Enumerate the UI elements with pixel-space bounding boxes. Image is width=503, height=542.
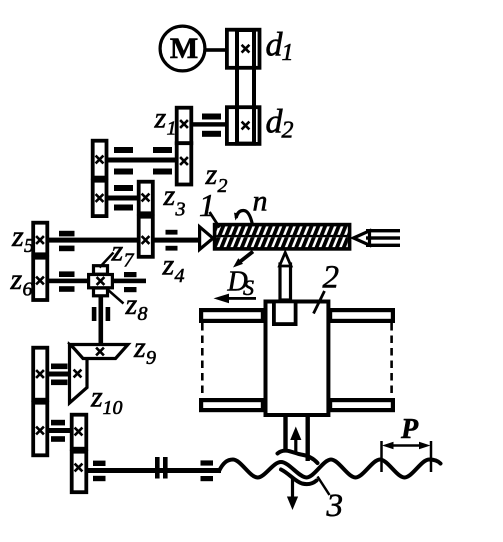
pulley d2 — [227, 107, 260, 144]
dashed line left — [201, 323, 204, 398]
bearing on vertical shaft — [92, 307, 97, 321]
wire: shaft III from gear block A to gear z3 — [97, 196, 140, 201]
svg-text:3: 3 — [326, 488, 344, 524]
label 1 leader — [210, 212, 220, 228]
belt between d1 and d2 — [237, 30, 254, 144]
bed rail right top — [330, 310, 393, 321]
svg-text:5: 5 — [24, 235, 34, 257]
svg-text:1: 1 — [167, 118, 177, 140]
gear z2 — [177, 143, 192, 184]
feed direction mini arrow — [239, 252, 253, 263]
svg-text:z: z — [154, 102, 167, 135]
bed rail left bottom — [201, 400, 263, 410]
workpiece 1 body — [215, 225, 350, 249]
wire: shaft IV bevel z10 to gear block B — [38, 372, 70, 377]
workpiece hatch bottom band — [216, 237, 347, 247]
pitch P dimension arrow — [392, 444, 421, 447]
bearing on shaft II right — [153, 147, 172, 153]
label z8 leader — [107, 289, 124, 304]
wire: shaft II from gear z2 to gear block A — [97, 158, 177, 163]
cutting tool tip — [280, 253, 292, 267]
label 3 leader — [318, 477, 330, 496]
wire: spindle shaft z5-z4-center — [38, 238, 200, 243]
leadscrew break lower stroke — [281, 470, 317, 485]
bearing on leadscrew shaft right — [201, 460, 214, 465]
table 2 central box — [266, 302, 329, 416]
svg-text:2: 2 — [282, 118, 294, 144]
wire: shaft V gear block B to gear block C — [38, 428, 72, 433]
svg-text:7: 7 — [124, 250, 135, 272]
bearing on spindle right — [166, 230, 178, 235]
svg-text:6: 6 — [23, 279, 33, 301]
label z7 leader — [100, 253, 114, 268]
svg-text:z: z — [111, 235, 124, 268]
svg-text:n: n — [253, 185, 268, 218]
svg-text:S: S — [243, 275, 254, 300]
spindle live center arrow — [200, 227, 213, 250]
gear block C top — [72, 415, 87, 449]
wire: motor shaft to pulley d1 — [204, 48, 227, 52]
nut leg left — [283, 417, 287, 453]
svg-text:z: z — [11, 220, 24, 253]
wire: feed shaft z6 to worm z7 — [38, 279, 146, 284]
leadscrew 3 wavy line — [219, 460, 441, 478]
tailstock centre — [354, 231, 370, 245]
pulley d1 — [227, 30, 260, 68]
svg-text:z: z — [163, 179, 176, 212]
cutting tool stem — [280, 264, 291, 300]
wire: shaft I from pulley d2 to gear z1 — [191, 122, 227, 126]
bed rail right bottom — [330, 400, 393, 410]
svg-text:1: 1 — [282, 40, 294, 66]
motor M — [160, 26, 205, 71]
bearing on shaft V — [51, 420, 65, 426]
gear z5 — [33, 223, 47, 255]
gear z6 — [33, 258, 47, 300]
down arrow — [291, 479, 294, 498]
label 2 leader — [314, 291, 325, 314]
bed rail left top — [201, 310, 263, 321]
leadscrew break upper stroke — [278, 451, 318, 463]
gear z4 — [139, 217, 153, 257]
gear block B bottom — [33, 403, 47, 456]
gear block A top — [93, 141, 107, 178]
svg-text:M: M — [170, 32, 198, 65]
svg-text:z: z — [125, 288, 138, 321]
gear block A bottom — [93, 181, 107, 216]
coupling on leadscrew shaft — [155, 457, 160, 479]
svg-text:8: 8 — [138, 303, 148, 325]
svg-text:2: 2 — [218, 175, 228, 197]
svg-text:9: 9 — [146, 347, 156, 369]
bearing on feed shaft right — [124, 272, 137, 277]
svg-text:3: 3 — [175, 199, 186, 221]
bearing on shaft I — [202, 114, 221, 120]
wire: leadscrew drive shaft — [80, 468, 221, 473]
pitch P tick left — [380, 441, 383, 472]
svg-text:z: z — [90, 381, 103, 414]
tailstock quill lines — [366, 229, 400, 232]
worm z7 top flange — [94, 266, 108, 275]
gear block C bottom — [72, 452, 87, 493]
svg-text:z: z — [133, 331, 146, 364]
gear z1 — [177, 108, 192, 144]
svg-text:P: P — [400, 414, 419, 445]
bearing on feed shaft left — [59, 271, 75, 277]
rotation arrow n — [236, 211, 252, 225]
svg-text:1: 1 — [199, 187, 215, 223]
bearing on leadscrew shaft left — [93, 461, 106, 466]
gear z3 — [139, 182, 153, 214]
dashed line right — [390, 323, 393, 398]
tool holder box — [274, 301, 296, 324]
worm z7 bottom flange — [94, 288, 108, 296]
nut leg right — [306, 417, 310, 461]
bearing on spindle left — [59, 231, 75, 237]
workpiece centre line — [216, 235, 347, 237]
gear block B top — [33, 348, 47, 400]
svg-text:z: z — [205, 158, 218, 191]
Ds arrow — [228, 297, 256, 300]
wire: vertical shaft from worm wheel z8 down to bevel z9 — [99, 296, 104, 348]
bearing on shaft IV — [51, 364, 68, 370]
bearing on shaft III — [114, 185, 133, 191]
bearing on shaft II left — [114, 147, 133, 153]
svg-text:z: z — [162, 249, 175, 282]
worm wheel z8 box — [89, 275, 113, 288]
svg-text:4: 4 — [175, 265, 185, 287]
svg-text:2: 2 — [323, 260, 340, 296]
svg-text:z: z — [10, 263, 23, 296]
pitch P tick right — [430, 441, 433, 472]
svg-text:10: 10 — [103, 397, 123, 419]
workpiece hatch top band — [216, 226, 347, 236]
up arrow — [294, 437, 297, 453]
bevel gear z9 — [71, 345, 129, 359]
bevel gear z10 — [70, 345, 88, 404]
